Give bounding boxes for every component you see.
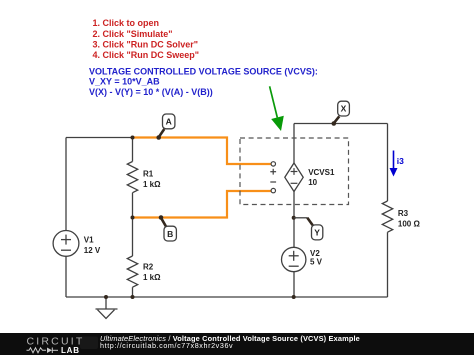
svg-text:V_XY = 10*V_AB: V_XY = 10*V_AB: [89, 77, 160, 87]
footer bar: [0, 333, 474, 355]
svg-text:1 kΩ: 1 kΩ: [143, 180, 161, 189]
R2 value label: [143, 263, 161, 282]
node X label: [332, 101, 350, 126]
green annotation arrow: [270, 86, 284, 131]
node B label: [159, 215, 177, 241]
node Y label: [294, 218, 323, 240]
svg-text:R3: R3: [398, 209, 409, 218]
footer logo chip shade: [80, 337, 98, 350]
V1 value label: [84, 235, 101, 255]
svg-text:A: A: [166, 117, 172, 127]
wire VCVS top stub: [293, 124, 295, 164]
svg-text:B: B: [167, 229, 173, 239]
svg-text:V2: V2: [310, 249, 320, 258]
junction node B on wire: [131, 216, 135, 220]
svg-text:VCVS1: VCVS1: [308, 168, 335, 177]
annotation blue VCVS description text: [89, 67, 318, 97]
V2 value label: [310, 249, 323, 267]
junction V2 bottom: [292, 295, 296, 299]
wire R3 bottom stub: [387, 232, 389, 297]
wire top-right horizontal (node X rail): [294, 123, 388, 125]
R1 value label: [143, 170, 161, 189]
voltage source V2: [282, 247, 306, 271]
wire orange B net: [133, 191, 272, 218]
wire R1 top stub: [132, 138, 134, 162]
resistor R3: [382, 201, 392, 232]
current arrow i3: [390, 151, 405, 177]
svg-text:Y: Y: [314, 228, 320, 238]
svg-text:12 V: 12 V: [84, 246, 101, 255]
wire left vertical lower (V1 bottom to bottom rail): [65, 256, 67, 297]
svg-text:10: 10: [308, 178, 317, 187]
svg-text:5 V: 5 V: [310, 258, 323, 267]
svg-text:3. Click "Run DC Solver": 3. Click "Run DC Solver": [93, 40, 199, 50]
annotation red instructions text: [93, 18, 200, 60]
junction R2 bottom: [131, 295, 135, 299]
svg-text:R2: R2: [143, 263, 154, 272]
VCVS1 input + terminal: [271, 162, 275, 166]
junction ground tap: [104, 295, 108, 299]
R3 value label: [398, 209, 421, 228]
wire R2 bottom stub: [132, 287, 134, 297]
wire V2 bottom stub: [293, 272, 295, 298]
node A label: [156, 114, 175, 140]
ground: [96, 297, 118, 319]
junction Y: [292, 216, 296, 220]
dependent source VCVS1: [285, 163, 303, 192]
junction node A on wire: [131, 136, 135, 140]
resistor R2: [127, 256, 137, 287]
wire orange A net: [133, 138, 272, 165]
svg-text:V(X) - V(Y) = 10 * (V(A) - V(B: V(X) - V(Y) = 10 * (V(A) - V(B)): [89, 87, 213, 97]
svg-text:http://circuitlab.com/c77x8xhr: http://circuitlab.com/c77x8xhr2v36v: [100, 341, 233, 350]
svg-text:1 kΩ: 1 kΩ: [143, 273, 161, 282]
svg-text:i3: i3: [397, 156, 404, 166]
wire B-to-R2 stub: [132, 218, 134, 257]
wire bottom rail: [66, 296, 388, 298]
wire left vertical upper (to V1 top): [65, 138, 67, 231]
svg-text:2. Click "Simulate": 2. Click "Simulate": [93, 29, 173, 39]
svg-text:LAB: LAB: [61, 346, 80, 355]
svg-text:R1: R1: [143, 170, 154, 179]
svg-text:X: X: [341, 104, 347, 114]
svg-text:V1: V1: [84, 235, 94, 244]
wire R1-to-B stub: [132, 193, 134, 218]
svg-text:4. Click "Run DC Sweep": 4. Click "Run DC Sweep": [93, 50, 200, 60]
svg-text:100 Ω: 100 Ω: [398, 220, 421, 229]
footer logo resistor-diode glyph: [27, 348, 59, 354]
resistor R1: [127, 162, 137, 193]
VCVS1 input polarity marks: [270, 169, 276, 182]
VCVS1 input - terminal: [271, 188, 275, 192]
voltage source V1: [53, 231, 79, 257]
VCVS1 value label: [308, 168, 335, 187]
wire R3 top stub: [387, 124, 389, 202]
svg-text:VOLTAGE CONTROLLED VOLTAGE SOU: VOLTAGE CONTROLLED VOLTAGE SOURCE (VCVS)…: [89, 67, 318, 77]
wire top-left horizontal (V1 to node A): [66, 137, 133, 139]
svg-text:1. Click to open: 1. Click to open: [93, 18, 160, 28]
dashed selection box around VCVS: [240, 138, 349, 205]
wire VCVS bottom to Y junction: [293, 192, 295, 248]
